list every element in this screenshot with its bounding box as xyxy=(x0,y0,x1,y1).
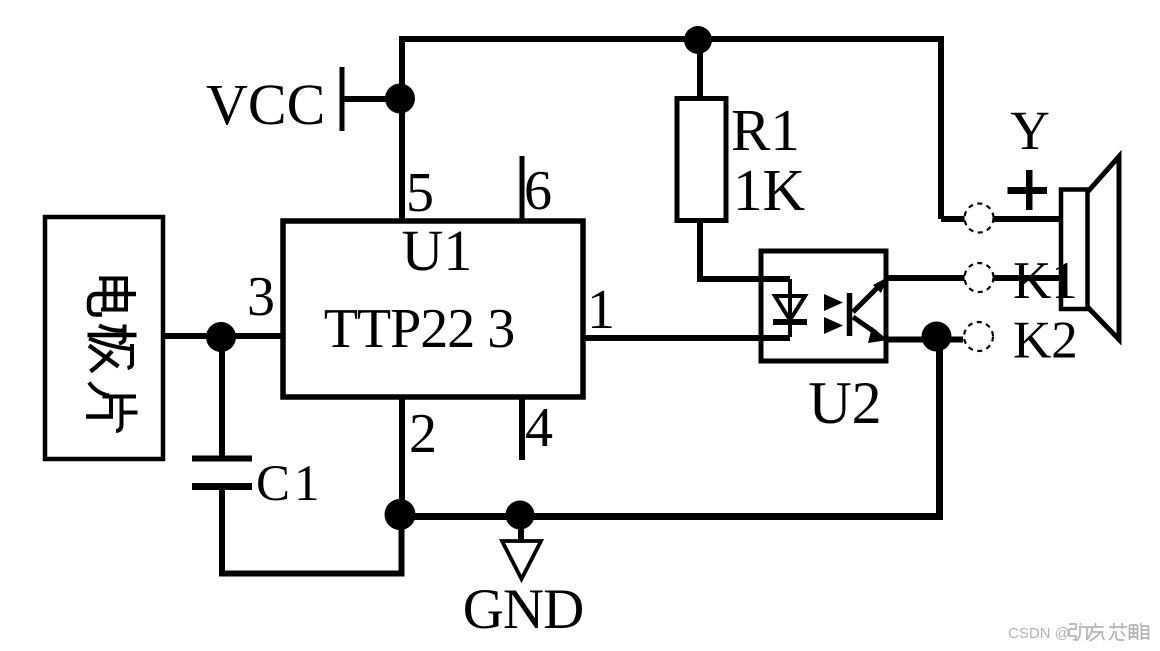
label TTP223 xyxy=(324,298,515,360)
svg-text:3: 3 xyxy=(247,266,275,328)
resistor R1 wire from top rail xyxy=(697,40,703,99)
ground symbol xyxy=(502,515,541,579)
svg-text:U1: U1 xyxy=(402,218,473,283)
plus sign xyxy=(1008,170,1048,210)
connector circle K1 xyxy=(965,263,994,292)
svg-text:Y: Y xyxy=(1010,100,1050,161)
pin label 1 xyxy=(587,279,615,341)
label C1 xyxy=(256,456,324,512)
U2 light arrows xyxy=(824,294,843,334)
junction VCC tap xyxy=(385,84,415,114)
electrode pad box 电极片 xyxy=(45,217,163,459)
wire Y terminal horizontal xyxy=(941,216,1061,222)
svg-text:K2: K2 xyxy=(1013,312,1078,370)
svg-text:R1: R1 xyxy=(731,97,800,163)
wire U2 collector to K1 and speaker xyxy=(886,275,1061,281)
wire right vertical from top rail to Y terminal xyxy=(938,36,944,219)
svg-text:VCC: VCC xyxy=(206,72,325,137)
VCC symbol xyxy=(342,67,392,131)
node pin3 junction xyxy=(206,322,236,352)
optocoupler U2 box xyxy=(761,251,886,361)
pin 4 stub xyxy=(519,397,525,460)
label U2 xyxy=(808,370,881,436)
pin 1 wire to U2 LED cathode xyxy=(583,335,790,341)
pin label 2 xyxy=(409,403,437,465)
wire top rail VCC net xyxy=(402,36,941,42)
resistor R1 body xyxy=(677,99,726,221)
wire C1 bottom loop to pin2 node xyxy=(222,490,402,574)
svg-text:C1: C1 xyxy=(256,456,324,512)
svg-text:5: 5 xyxy=(406,162,434,224)
connector circle K2 xyxy=(964,322,993,351)
wire node to C1 xyxy=(219,336,225,456)
svg-text:U2: U2 xyxy=(808,370,881,436)
IC U1 box xyxy=(283,221,583,397)
wire ground rail up to K2 node xyxy=(936,337,943,520)
watermark CSDN @驴友花雕 xyxy=(1008,623,1149,642)
node pin2 / C1 / GND junction xyxy=(385,499,416,530)
pin 2 wire xyxy=(399,397,405,515)
label K2 xyxy=(1013,312,1078,370)
svg-text:4: 4 xyxy=(525,397,553,459)
wire U2 emitter to K2 node xyxy=(886,337,963,343)
pin label 3 xyxy=(247,266,275,328)
svg-text:CSDN @: CSDN @ xyxy=(1008,625,1070,642)
speaker buzzer Y xyxy=(1061,157,1119,340)
label Y xyxy=(1010,100,1050,161)
wire bottom ground rail xyxy=(400,513,940,520)
label R1 xyxy=(731,97,800,163)
svg-text:2: 2 xyxy=(409,403,437,465)
svg-text:K1: K1 xyxy=(1013,252,1078,310)
pin 6 stub xyxy=(520,156,525,221)
svg-text:TTP22 3: TTP22 3 xyxy=(324,298,515,360)
label K1 xyxy=(1013,252,1078,310)
label U1 xyxy=(402,218,473,283)
label VCC xyxy=(206,72,325,137)
node GND junction xyxy=(506,501,535,530)
U2 phototransistor collector xyxy=(853,277,888,312)
U2 phototransistor base bar xyxy=(847,293,853,336)
capacitor C1 xyxy=(192,459,252,487)
svg-text:1: 1 xyxy=(587,279,615,341)
wire electrode to U1 pin 3 xyxy=(163,333,285,339)
label 电极片 (rotated, drawn strokes) xyxy=(86,277,138,432)
pin label 5 xyxy=(406,162,434,224)
svg-text:GND: GND xyxy=(463,578,584,641)
U2 LED diode xyxy=(773,296,807,322)
svg-text:1K: 1K xyxy=(733,157,805,223)
label 1K xyxy=(733,157,805,223)
pin label 4 xyxy=(525,397,553,459)
U2 LED lead xyxy=(788,279,792,337)
wire left vertical from top rail to U1 pin 5 xyxy=(399,36,405,221)
label GND xyxy=(463,578,584,641)
connector circle Y xyxy=(965,204,994,233)
U2 phototransistor emitter xyxy=(853,317,888,343)
svg-text:6: 6 xyxy=(524,160,552,222)
wire R1 bottom to U2 LED anode xyxy=(700,220,790,279)
pin label 6 xyxy=(524,160,552,222)
junction top rail to R1 xyxy=(684,26,712,54)
node K2 junction xyxy=(922,322,952,352)
